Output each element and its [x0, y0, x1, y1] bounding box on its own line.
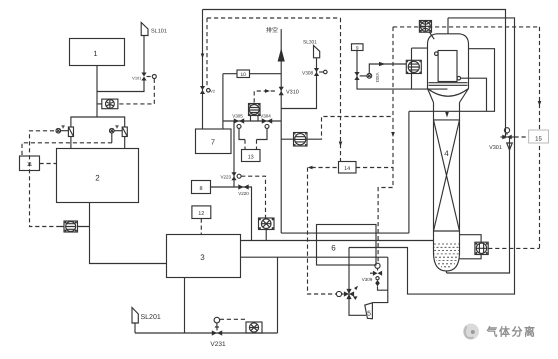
svg-text:气体分离: 气体分离 [486, 325, 537, 339]
dash C left drop [206, 18, 208, 87]
tower dome [428, 18, 469, 103]
wire box8 to V220 [211, 187, 252, 240]
svg-text:V101: V101 [132, 76, 142, 81]
valve V220 [238, 184, 249, 196]
packing dots [434, 244, 459, 267]
svg-text:V303: V303 [375, 73, 380, 83]
arrow on dash drop [391, 132, 395, 137]
valve V310 [279, 87, 299, 96]
wire box3 bottom [184, 278, 186, 334]
instrument dashes box11 [22, 131, 112, 227]
svg-text:5: 5 [367, 311, 371, 318]
valve V308 [302, 68, 327, 77]
wire inner outlet [460, 78, 486, 111]
gauge G2 [110, 126, 123, 143]
valve V304 [260, 114, 272, 129]
arrow on dash to box14 [339, 142, 343, 147]
svg-text:V301: V301 [489, 145, 502, 151]
wires to box 13 [239, 128, 267, 149]
wire bottom riser [277, 257, 279, 333]
vent arrow [278, 48, 285, 62]
controller box 12 [192, 206, 211, 235]
svg-text:V305: V305 [232, 114, 243, 119]
box 3 [167, 235, 241, 278]
controller box 15 [515, 130, 549, 143]
actuator link SL101 valve [119, 75, 157, 104]
dash C to box 14 [340, 18, 342, 162]
svg-text:V304: V304 [260, 114, 271, 119]
svg-text:7: 7 [211, 138, 215, 147]
box 9 [352, 44, 364, 52]
svg-text:V309: V309 [362, 277, 373, 282]
process wire V305 V304 [223, 120, 281, 122]
dash box14 left [308, 166, 339, 294]
meter M2 [281, 133, 318, 147]
svg-text:8: 8 [199, 186, 202, 192]
svg-text:SL101: SL101 [151, 29, 167, 35]
drain wire [447, 137, 510, 273]
svg-text:SL201: SL201 [141, 314, 161, 321]
riser to tower frame [408, 111, 410, 233]
dash bus D [393, 26, 540, 28]
wire box1 to manifold [96, 66, 98, 118]
top line B [349, 18, 515, 294]
blower B1 [97, 99, 118, 109]
valve V303 [354, 72, 380, 83]
manifold wire [71, 117, 125, 127]
valve V231 [210, 317, 226, 348]
svg-text:2: 2 [95, 174, 100, 183]
process wire yB [241, 256, 388, 258]
vent line [280, 29, 282, 233]
box 1 [70, 39, 125, 66]
wire box9 down [357, 51, 448, 90]
box 14 [339, 162, 357, 174]
box 6 [317, 225, 377, 266]
svg-text:15: 15 [535, 136, 542, 143]
instrument dash header C [207, 17, 341, 19]
tower frame [412, 48, 428, 89]
svg-text:V223: V223 [220, 175, 231, 180]
svg-text:14: 14 [344, 166, 350, 172]
filter F1 [68, 127, 73, 149]
wire box2 to box3 [90, 203, 167, 264]
tower column [434, 103, 460, 272]
wire dome outlet to column arrow [409, 49, 495, 118]
flag 5 [365, 303, 373, 319]
svg-text:V220: V220 [238, 191, 249, 196]
box6 outlet drop [373, 257, 388, 302]
wire SL101 to valve [143, 36, 145, 73]
svg-text:V231: V231 [210, 341, 226, 348]
svg-text:10: 10 [240, 72, 246, 78]
svg-text:1: 1 [93, 49, 97, 58]
top header line A [203, 10, 506, 138]
blower B3 [220, 319, 262, 333]
wire valve to main line [97, 81, 144, 92]
blower B6 top [419, 21, 434, 40]
drop to flag5 [349, 248, 366, 316]
svg-text:V2: V2 [210, 90, 215, 94]
valve V201 [200, 86, 215, 94]
arrow on D right drop [538, 101, 542, 106]
svg-text:12: 12 [198, 211, 204, 217]
valve V101 [132, 73, 146, 81]
svg-text:排空: 排空 [266, 26, 278, 34]
dash D right drop [539, 27, 541, 249]
valve V223 [220, 172, 241, 180]
watermark logo [463, 324, 479, 340]
box 2 [57, 149, 139, 203]
meter M1 [249, 104, 261, 122]
branch to V223 [233, 121, 235, 187]
valve V309 [362, 263, 388, 290]
blower B5 [406, 60, 421, 73]
instrument dash to V310 [254, 89, 276, 102]
box 10 [223, 70, 281, 78]
dash V223 to blower B4 [241, 176, 265, 218]
box 8 [192, 181, 211, 194]
svg-text:V308: V308 [302, 71, 314, 77]
gauge G1 [56, 126, 68, 133]
process wire yA [241, 240, 434, 242]
svg-text:13: 13 [248, 155, 254, 161]
svg-text:V310: V310 [286, 90, 299, 96]
controller box 13 [242, 150, 261, 162]
bottom wire [135, 332, 278, 334]
wire box10 leg [222, 74, 224, 129]
flow arrow on A drop [201, 54, 205, 59]
silencer SL301 [281, 40, 320, 109]
svg-text:SL301: SL301 [303, 40, 317, 46]
valve V301 [489, 128, 514, 151]
dash box14 right [356, 167, 393, 169]
dash D drop [378, 27, 393, 263]
svg-text:9: 9 [356, 45, 359, 51]
valve V305 [232, 114, 244, 129]
svg-text:4: 4 [444, 149, 449, 158]
control valve cluster [336, 286, 358, 300]
blower B4 [259, 218, 275, 240]
wire A down to box7 [202, 10, 204, 130]
wire V303 branch [369, 62, 406, 74]
svg-text:6: 6 [331, 244, 336, 253]
silencer SL101 [141, 23, 167, 36]
wire across to frame riser [281, 232, 409, 234]
controller box 11 [20, 156, 40, 171]
svg-text:3: 3 [200, 253, 205, 262]
box 7 [196, 129, 232, 154]
filter F2 [122, 127, 127, 149]
blower B2 [58, 221, 90, 232]
dash meter2 to bus [318, 117, 393, 140]
blower B7 [459, 235, 540, 259]
silencer SL201 [132, 308, 161, 334]
